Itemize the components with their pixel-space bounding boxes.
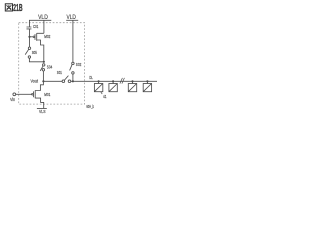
wire S02 to DL junction [72,74,74,81]
node junction bus/S04 [43,61,45,63]
capacitor C01 [27,27,32,29]
wire gate node to M02 gate [30,36,34,38]
node pixel 2 [112,80,114,82]
svg-text:S02: S02 [76,62,82,67]
transistor M01 [32,94,34,96]
power rail VLD left [29,19,51,21]
switch S04 [43,64,45,66]
pixel box 2 [109,84,117,92]
power rail VLS [37,108,47,110]
svg-text:S05: S05 [32,50,37,55]
svg-text:S04: S04 [47,64,53,69]
switch S01 [62,80,65,83]
node pixel 3 [131,80,133,82]
break symbol on DL line [120,78,125,84]
svg-text:M02: M02 [44,34,50,39]
switch S05 [29,46,31,48]
pixel box 1 [94,84,102,92]
svg-text:Vin: Vin [10,97,15,102]
pixel box 4 [143,84,151,92]
leader line 41 [101,92,102,94]
node junction S02/DL [72,80,74,82]
wire VLD right rail to S02 [72,20,74,62]
svg-text:VLS: VLS [39,109,46,114]
svg-text:S01: S01 [57,70,62,75]
figure label 図21B [5,4,12,11]
terminal Vin [13,93,16,96]
wire C01 to gate node [29,29,31,47]
transistor M02 [33,36,35,38]
node pixel 4 [146,80,148,82]
power rail VLD right [66,19,78,21]
node junction C01/gate [28,36,30,38]
switch S02 [72,62,74,64]
pixel box 3 [128,84,136,92]
wire VLD left rail down to C01 [29,20,31,27]
svg-text:DL: DL [89,75,93,80]
svg-text:Vout: Vout [31,78,39,83]
node pixel 1 [98,80,100,82]
svg-text:41: 41 [103,94,107,99]
wire Vin to M01 gate [16,93,32,95]
wire Vout to S01 [43,80,62,82]
wire S05 to bus [29,58,43,62]
svg-text:21B: 21B [13,3,23,14]
wire S01 to DL line [71,80,157,82]
dashed block boundary 60H_b [19,23,85,104]
svg-text:C01: C01 [33,24,39,29]
node Vout [42,80,44,82]
svg-text:M01: M01 [44,92,50,97]
svg-text:60H_b: 60H_b [86,104,94,109]
wire S04 to Vout node [42,71,44,81]
